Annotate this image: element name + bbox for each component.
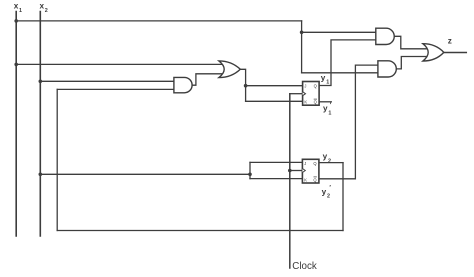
svg-text:1: 1 <box>326 79 329 85</box>
wire to FF1 J input <box>246 85 303 87</box>
junction dot clock FF2 <box>288 169 292 173</box>
wire OR1 output vertical <box>240 69 246 101</box>
wire AND3 output to OR1 bottom input <box>192 74 225 85</box>
svg-text:K: K <box>304 177 307 182</box>
flip-flop FF1 box <box>303 82 320 106</box>
svg-text:2: 2 <box>45 8 48 14</box>
wire FF1 Qbar stub y1' <box>319 101 331 103</box>
flip-flop FF2 box <box>302 159 319 183</box>
svg-text:Q: Q <box>314 83 317 88</box>
wire y2 feedback bottom horizontal <box>57 230 343 232</box>
junction dot x2 AND3 branch <box>39 80 43 84</box>
input x1 vertical wire <box>15 12 17 237</box>
AND gate A3 (middle left) <box>174 77 192 92</box>
junction dot x2 FF2 branch <box>39 173 43 177</box>
AND gate A1 (top right) <box>376 28 394 44</box>
junction dot OR1 output to J1 <box>244 84 248 88</box>
svg-text:J: J <box>304 161 306 166</box>
junction dot x1 AND1 branch <box>300 31 304 35</box>
clock vertical wire <box>289 94 291 268</box>
wire to FF1 K input <box>246 100 303 102</box>
wire x1 to OR1 top input <box>16 63 224 65</box>
svg-text:1: 1 <box>328 110 331 116</box>
svg-text:K: K <box>304 100 307 105</box>
input x2 vertical wire <box>39 12 41 237</box>
wire x2 to FF2 JK branch <box>40 173 250 175</box>
wire clock to FF1 clock input <box>290 93 303 95</box>
wire FF2 Q output y2 <box>319 162 343 164</box>
svg-text:z: z <box>448 37 452 46</box>
junction dot x1 OR1 branch <box>14 63 18 67</box>
svg-text:y: y <box>321 73 326 82</box>
svg-text:Q: Q <box>314 100 317 105</box>
wire x1 to AND2 bottom input <box>302 72 379 74</box>
wire FF2 Qbar output to AND2 top input (y2') <box>319 65 379 179</box>
AND gate A2 (right, lower) <box>378 61 396 77</box>
wire y2 feedback top horizontal <box>57 88 176 90</box>
svg-text:2: 2 <box>328 158 331 164</box>
wire x1 top branch horizontal <box>16 20 301 22</box>
svg-text:Q: Q <box>313 177 316 182</box>
wire x1 branch vertical <box>301 21 303 73</box>
svg-text:y: y <box>322 187 327 196</box>
svg-text:1: 1 <box>19 8 22 14</box>
flip-flop FF2 clock wedge <box>302 169 305 173</box>
wire JK2 branch vertical <box>249 162 251 178</box>
wire AND2 output to OR2 bottom input <box>396 57 429 69</box>
svg-text:J: J <box>304 83 306 88</box>
OR gate O2 (output z) <box>423 44 444 61</box>
wire to FF2 J input <box>250 161 303 163</box>
wire y2 feedback right vertical <box>342 163 344 231</box>
wire clock to FF2 clock input <box>290 170 303 172</box>
junction dot x1 top branch <box>14 19 18 23</box>
svg-text:y: y <box>323 104 328 113</box>
wire x2 to AND3 top input <box>40 80 176 82</box>
wire to AND1 top input <box>302 31 377 33</box>
junction dot JK2 branch <box>248 173 252 177</box>
wire z output <box>443 52 466 54</box>
svg-text:Clock: Clock <box>292 261 317 272</box>
wire FF1 Q output to AND1 bottom input (y1) <box>319 40 377 86</box>
svg-text:2: 2 <box>327 193 330 199</box>
svg-text:y: y <box>323 152 328 161</box>
wire y2 feedback left vertical <box>56 89 58 230</box>
OR gate O1 (middle) <box>219 61 240 78</box>
wire AND1 output to OR2 top input <box>394 36 429 49</box>
flip-flop FF1 clock wedge <box>303 92 306 96</box>
svg-text:Q: Q <box>313 161 316 166</box>
wire to FF2 K input <box>250 178 303 180</box>
